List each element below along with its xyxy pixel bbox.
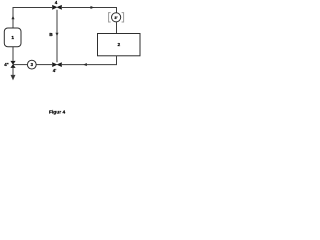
arrow down on B feed bbox=[56, 33, 59, 37]
wire from tank 1 top up to header bbox=[12, 8, 14, 29]
valve 4' bbox=[52, 62, 62, 67]
wire B feed down to valve 4' bbox=[56, 10, 58, 63]
bracket left of pump 3' bbox=[109, 13, 111, 22]
label 4'' bbox=[4, 62, 9, 67]
wire box 1 bottom to valve 4'' bbox=[12, 47, 14, 61]
valve 4'' (vertical) bbox=[10, 61, 15, 68]
pump 3' bbox=[112, 13, 121, 22]
wire top header left segment bbox=[13, 7, 53, 9]
wire circle 3 to valve 4' bbox=[36, 64, 52, 66]
svg-text:4": 4" bbox=[4, 62, 9, 67]
node B label bbox=[49, 32, 53, 38]
svg-text:1: 1 bbox=[11, 35, 14, 41]
wire top header right segment bbox=[62, 8, 117, 14]
tank 1 bbox=[4, 28, 21, 47]
arrow right on header bbox=[91, 6, 95, 9]
caption Figur 4 bbox=[49, 109, 65, 115]
svg-text:2: 2 bbox=[117, 42, 120, 48]
bracket right of pump 3' bbox=[122, 13, 124, 22]
box 2 bbox=[98, 34, 141, 56]
pump 3 bbox=[27, 60, 36, 69]
svg-text:4': 4' bbox=[53, 68, 57, 73]
label 4 bbox=[55, 0, 58, 5]
svg-text:B: B bbox=[49, 32, 53, 38]
arrow up on riser bbox=[12, 15, 15, 19]
valve 4 bbox=[52, 5, 62, 10]
wire pump 3' to box 2 bbox=[116, 22, 118, 34]
wire valve 4'' to pump 3 bbox=[13, 64, 27, 66]
arrow left on return line bbox=[83, 63, 87, 66]
wire drain below valve 4'' bbox=[11, 68, 14, 80]
svg-text:3': 3' bbox=[114, 15, 117, 20]
wire box 2 bottom return to valve 4' bbox=[62, 56, 117, 65]
svg-text:Figur 4: Figur 4 bbox=[49, 109, 65, 115]
label 4' bbox=[53, 68, 57, 73]
svg-text:4: 4 bbox=[55, 0, 58, 5]
